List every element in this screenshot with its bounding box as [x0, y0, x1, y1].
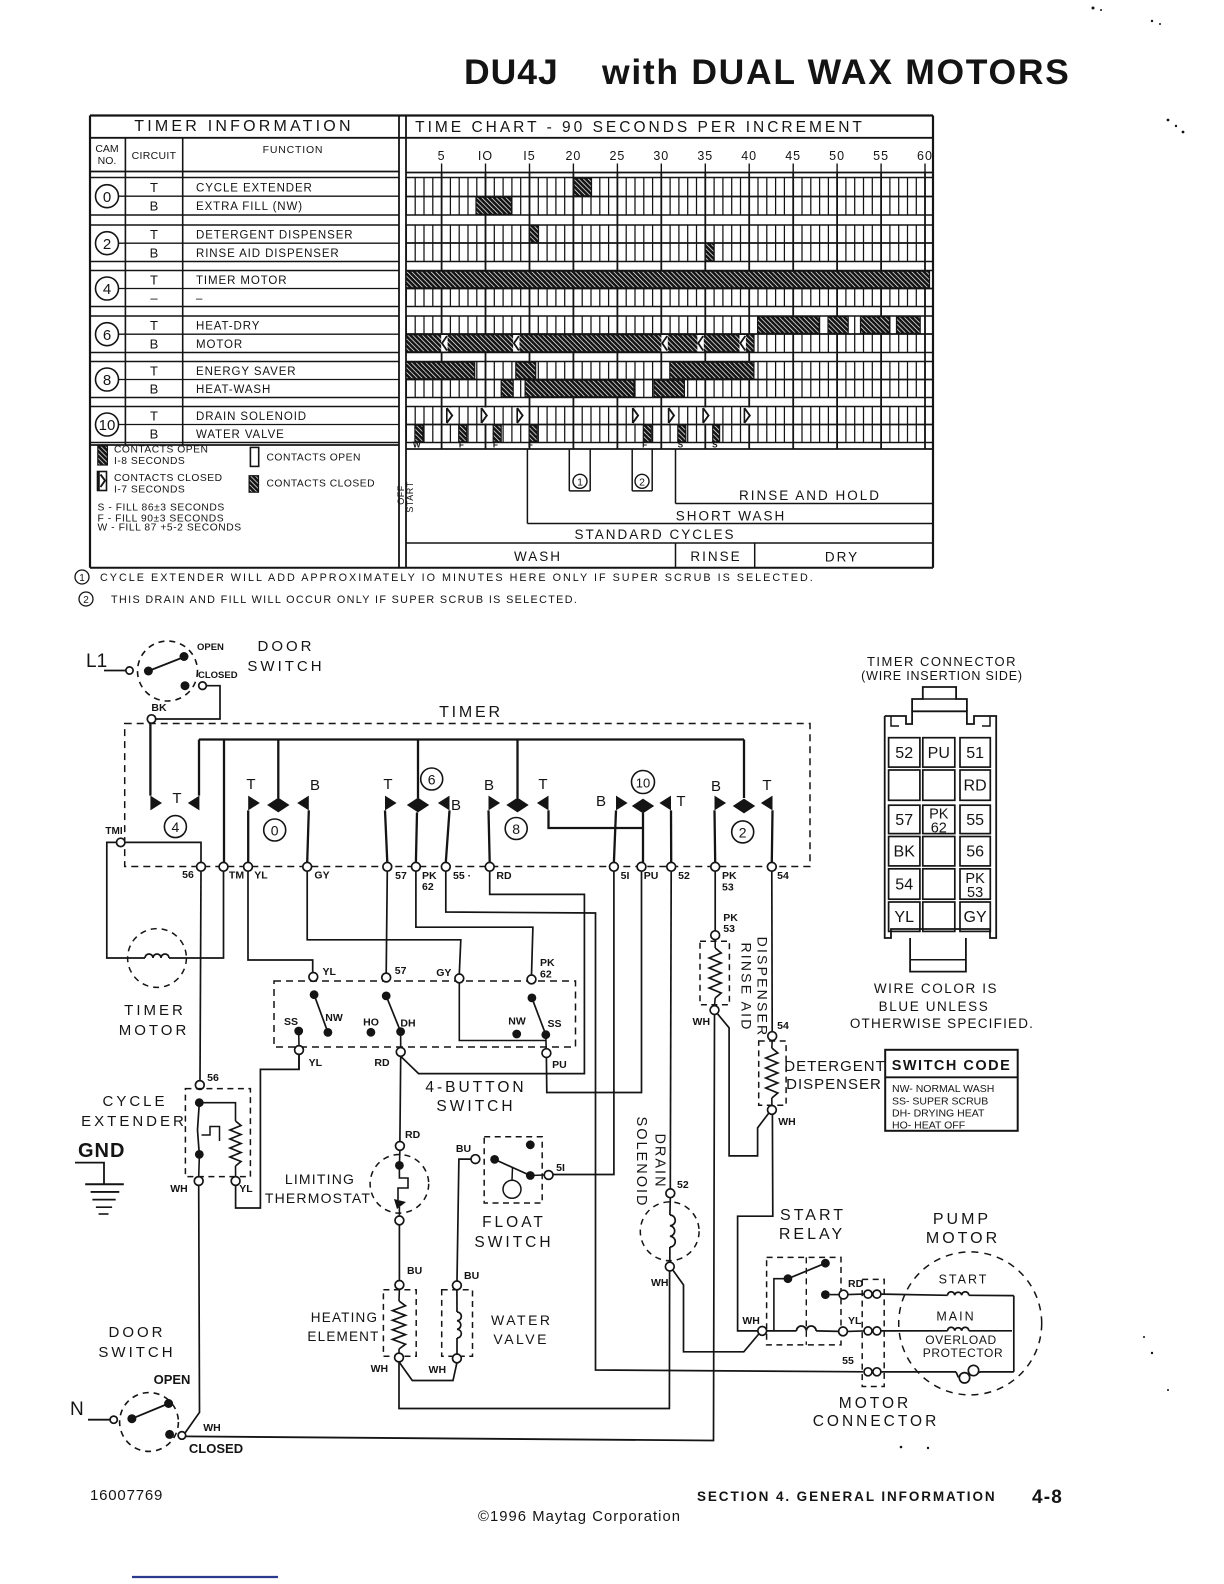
- limiting thermostat: [370, 1150, 429, 1225]
- svg-text:WH: WH: [203, 1422, 221, 1434]
- start relay assembly: [758, 1257, 848, 1345]
- svg-text:CLOSED: CLOSED: [189, 1441, 243, 1456]
- svg-text:LIMITING: LIMITING: [285, 1171, 355, 1187]
- terminal 56: [182, 862, 205, 881]
- svg-text:RD: RD: [964, 778, 987, 795]
- svg-text:SWITCH: SWITCH: [436, 1098, 515, 1115]
- ground symbol: [75, 1163, 124, 1214]
- wire bus to terminal TM: [223, 740, 225, 863]
- svg-text:HEAT-DRY: HEAT-DRY: [196, 321, 260, 333]
- svg-text:YL: YL: [848, 1315, 862, 1327]
- label WATER VALVE: [491, 1312, 553, 1347]
- svg-text:ELEMENT: ELEMENT: [307, 1329, 379, 1344]
- svg-text:1: 1: [79, 573, 85, 584]
- svg-text:F: F: [459, 440, 464, 449]
- heating element R1: [383, 1289, 416, 1362]
- svg-text:WIRE COLOR IS: WIRE COLOR IS: [874, 981, 998, 996]
- svg-text:CONTACTS CLOSED: CONTACTS CLOSED: [267, 479, 376, 490]
- float switch node labels: [456, 1143, 565, 1174]
- svg-text:WH: WH: [651, 1277, 669, 1289]
- svg-text:F: F: [642, 440, 647, 449]
- svg-text:56: 56: [207, 1072, 219, 1084]
- svg-text:IO: IO: [478, 149, 493, 163]
- svg-text:WH: WH: [429, 1364, 447, 1376]
- svg-text:CONNECTOR: CONNECTOR: [813, 1413, 940, 1430]
- svg-text:8: 8: [103, 372, 111, 389]
- svg-text:RINSE AND HOLD: RINSE AND HOLD: [739, 488, 881, 503]
- pump motor labels: [923, 1273, 1004, 1361]
- wire cam 10 T contact to terminal 52: [670, 810, 673, 862]
- svg-text:START: START: [405, 481, 415, 512]
- svg-text:(WIRE INSERTION SIDE): (WIRE INSERTION SIDE): [861, 669, 1023, 683]
- svg-text:4-BUTTON: 4-BUTTON: [425, 1079, 526, 1096]
- wire thermostat to heating element BU: [398, 1225, 400, 1281]
- svg-text:4: 4: [172, 819, 180, 835]
- svg-text:BU: BU: [407, 1265, 422, 1277]
- drain solenoid L1: [640, 1198, 699, 1271]
- node YL (cycle extender): [231, 1177, 253, 1195]
- svg-text:B: B: [451, 797, 461, 814]
- svg-text:SECTION 4. GENERAL INFORMATIO: SECTION 4. GENERAL INFORMATION: [697, 1489, 997, 1504]
- svg-text:SWITCH: SWITCH: [98, 1344, 175, 1361]
- svg-text:55 ·: 55 ·: [453, 870, 471, 882]
- svg-text:T: T: [150, 409, 158, 424]
- function names: [196, 183, 353, 442]
- fill letter row: [413, 440, 718, 449]
- terminal 57 (timer): [383, 862, 407, 882]
- svg-text:FUNCTION: FUNCTION: [263, 144, 324, 156]
- rinse aid dispenser heater: [700, 940, 729, 1015]
- svg-text:BU: BU: [456, 1143, 471, 1155]
- terminal GY (timer): [303, 862, 330, 881]
- wire cycle extender YL to 4-button switch YL output: [236, 1054, 299, 1208]
- svg-text:CYCLE EXTENDER: CYCLE EXTENDER: [196, 183, 313, 195]
- svg-text:OPEN: OPEN: [197, 642, 224, 653]
- svg-text:©1996 Maytag Corporation: ©1996 Maytag Corporation: [478, 1509, 681, 1525]
- svg-text:53: 53: [723, 923, 735, 935]
- node 56 (cycle extender): [195, 1072, 219, 1089]
- svg-text:TMI: TMI: [105, 826, 122, 837]
- svg-text:MAIN: MAIN: [936, 1310, 975, 1324]
- svg-text:B: B: [150, 382, 159, 397]
- svg-text:62: 62: [540, 969, 552, 981]
- svg-text:2: 2: [103, 236, 111, 253]
- svg-text:T: T: [676, 793, 685, 810]
- svg-text:30: 30: [653, 149, 669, 163]
- terminal PK 53 (timer): [711, 862, 737, 893]
- svg-text:OVERLOAD: OVERLOAD: [925, 1333, 997, 1347]
- drain solenoid row pulse marks: [446, 408, 750, 424]
- svg-text:DRAIN: DRAIN: [652, 1133, 668, 1188]
- wire heating element and water valve WH junction: [399, 1272, 670, 1409]
- left table row lines: [90, 178, 399, 443]
- svg-text:SWITCH: SWITCH: [474, 1234, 553, 1251]
- label HEATING ELEMENT: [307, 1310, 379, 1344]
- svg-text:ENERGY SAVER: ENERGY SAVER: [196, 366, 297, 378]
- svg-text:52: 52: [678, 870, 690, 882]
- svg-text:DISPENSER: DISPENSER: [755, 937, 771, 1038]
- node WH (cycle extender): [170, 1177, 203, 1195]
- svg-text:0: 0: [271, 823, 279, 839]
- svg-text:5I: 5I: [556, 1162, 565, 1174]
- terminal PK 62 (timer): [412, 862, 438, 893]
- svg-text:BLUE UNLESS: BLUE UNLESS: [879, 999, 990, 1014]
- wire L1 bus inside timer: [199, 738, 744, 740]
- door switch (bottom, N side): [120, 1393, 186, 1452]
- svg-text:62: 62: [422, 881, 434, 893]
- wire 55 to overload protector: [0, 0, 1, 1]
- timer enclosure (dashed): [125, 724, 810, 867]
- svg-text:THIS DRAIN AND FILL WILL OCCUR: THIS DRAIN AND FILL WILL OCCUR ONLY IF S…: [111, 594, 578, 606]
- svg-text:25: 25: [609, 149, 625, 163]
- svg-text:DU4J: DU4J: [464, 52, 559, 92]
- label DETERGENT DISPENSER: [784, 1058, 886, 1093]
- svg-text:SS: SS: [284, 1016, 298, 1028]
- cycle extender (wax motor) assembly: [185, 1089, 250, 1177]
- svg-text:DOOR: DOOR: [109, 1324, 166, 1341]
- svg-text:TIMER INFORMATION: TIMER INFORMATION: [134, 118, 353, 135]
- wire terminal YL to 4-button switch: [248, 871, 313, 973]
- svg-text:BK: BK: [151, 702, 167, 714]
- svg-text:2: 2: [739, 824, 747, 840]
- svg-text:GND: GND: [78, 1140, 125, 1162]
- svg-text:51: 51: [966, 745, 984, 762]
- svg-text:RD: RD: [848, 1278, 864, 1290]
- svg-text:6: 6: [428, 772, 436, 788]
- svg-text:BK: BK: [894, 844, 916, 861]
- svg-text:SOLENOID: SOLENOID: [633, 1117, 649, 1208]
- svg-text:DETERGENT DISPENSER: DETERGENT DISPENSER: [196, 230, 353, 242]
- svg-text:B: B: [484, 777, 494, 794]
- wire cam 10 B contact to terminal 51: [614, 810, 616, 862]
- svg-text:W: W: [413, 440, 421, 449]
- cam switch 2: [711, 777, 773, 843]
- wire cam 0 T contact to terminal YL: [247, 810, 249, 862]
- svg-text:RELAY: RELAY: [779, 1226, 845, 1243]
- svg-text:T: T: [150, 318, 158, 333]
- svg-text:GY: GY: [964, 909, 987, 926]
- wire timer motor to terminal TM: [169, 871, 224, 958]
- timer motor M1: [128, 929, 187, 988]
- svg-text:DRY: DRY: [825, 550, 859, 565]
- svg-text:B: B: [150, 336, 159, 351]
- svg-text:HO: HO: [363, 1017, 379, 1029]
- svg-text:HO- HEAT OFF: HO- HEAT OFF: [892, 1120, 965, 1132]
- svg-text:W - FILL 87 +5-2 SECONDS: W - FILL 87 +5-2 SECONDS: [98, 523, 242, 534]
- label TIMER MOTOR: [119, 1002, 190, 1039]
- wire drain solenoid WH to start relay WH: [673, 1270, 759, 1352]
- node N: [70, 1399, 117, 1423]
- svg-text:OTHERWISE SPECIFIED.: OTHERWISE SPECIFIED.: [850, 1016, 1034, 1031]
- label LIMITING THERMOSTAT: [265, 1171, 371, 1206]
- svg-text:45: 45: [785, 149, 801, 163]
- svg-text:WH: WH: [170, 1183, 188, 1195]
- detergent dispenser heater: [759, 1041, 786, 1115]
- start relay node labels: [742, 1278, 863, 1327]
- svg-text:B: B: [150, 427, 159, 442]
- label TIMER: [439, 704, 503, 721]
- wire bus to cam 2 common: [743, 740, 745, 799]
- svg-text:L1: L1: [86, 651, 107, 672]
- footer blue rule: [132, 1576, 278, 1578]
- svg-text:T: T: [762, 777, 771, 794]
- 4-button switch node labels: [309, 957, 567, 1071]
- svg-text:RINSE: RINSE: [690, 549, 741, 564]
- svg-text:NW: NW: [325, 1012, 343, 1024]
- svg-text:PROTECTOR: PROTECTOR: [923, 1346, 1004, 1360]
- wire relay RD to pump motor start winding: [848, 1294, 948, 1295]
- svg-text:PU: PU: [552, 1059, 567, 1071]
- svg-text:EXTENDER: EXTENDER: [81, 1113, 187, 1130]
- svg-text:PU: PU: [928, 745, 950, 762]
- wire rinse aid WH to detergent WH (loop): [718, 1014, 769, 1156]
- svg-text:52: 52: [895, 745, 913, 762]
- node BU (water valve): [453, 1270, 480, 1290]
- node TMI: [105, 826, 125, 847]
- svg-text:THERMOSTAT: THERMOSTAT: [265, 1190, 371, 1206]
- 4-button switch position labels: [284, 1012, 562, 1030]
- svg-text:50: 50: [829, 149, 845, 163]
- svg-text:DISPENSER: DISPENSER: [786, 1076, 882, 1093]
- wire cam 2 B contact to terminal PK53: [713, 810, 716, 862]
- svg-text:WH: WH: [371, 1363, 389, 1375]
- wire cam 6 T contact to terminal 57: [385, 810, 387, 862]
- svg-text:2: 2: [83, 595, 89, 606]
- node WH (drain solenoid): [651, 1277, 669, 1289]
- wire timer 54 to detergent dispenser: [771, 871, 773, 1032]
- footer section title: [697, 1487, 1063, 1508]
- chart row grids: [406, 178, 933, 450]
- svg-text:S: S: [678, 440, 684, 449]
- svg-text:8: 8: [512, 821, 520, 837]
- node PU (4-button): [0, 0, 1, 1]
- wire cam 6 B contact to terminal 55: [446, 810, 450, 862]
- svg-text:TIMER: TIMER: [439, 704, 503, 721]
- footer part number: [90, 1487, 163, 1504]
- svg-text:54: 54: [777, 1020, 789, 1032]
- svg-text:52: 52: [677, 1179, 689, 1191]
- svg-text:TIMER: TIMER: [124, 1002, 186, 1019]
- svg-text:TIMER CONNECTOR: TIMER CONNECTOR: [867, 654, 1017, 669]
- svg-text:SWITCH: SWITCH: [247, 658, 324, 675]
- svg-text:DH: DH: [400, 1018, 415, 1030]
- wire cam 2 T contact to terminal 54: [771, 810, 774, 862]
- svg-text:55: 55: [966, 812, 984, 829]
- wire terminal 55 to motor connector 55: [446, 871, 863, 1372]
- cam switch 8: [484, 776, 549, 840]
- label DRAIN SOLENOID (rotated): [633, 1117, 668, 1208]
- timer chart table frame: [90, 116, 933, 568]
- svg-text:CAM: CAM: [95, 143, 118, 155]
- node WH (detergent): [778, 1116, 796, 1128]
- wire detergent WH to start relay: [738, 1114, 773, 1331]
- label PUMP MOTOR: [926, 1211, 1000, 1247]
- svg-text:PK: PK: [722, 870, 737, 882]
- svg-text:PU: PU: [644, 870, 659, 882]
- svg-text:53: 53: [967, 885, 983, 901]
- svg-text:NO.: NO.: [98, 155, 117, 167]
- svg-text:PUMP: PUMP: [933, 1211, 991, 1228]
- cam switch 6: [383, 768, 461, 814]
- terminal 55 (timer): [441, 862, 471, 882]
- wire bus to cam 6 common: [417, 740, 419, 799]
- wire 4-button PU output to timer PU: [546, 871, 641, 1093]
- label TIMER CONNECTOR: [861, 654, 1023, 683]
- label DOOR SWITCH (bottom): [98, 1324, 243, 1456]
- svg-text:MOTOR: MOTOR: [119, 1022, 190, 1039]
- svg-text:WATER: WATER: [491, 1312, 553, 1328]
- svg-text:57: 57: [395, 965, 407, 977]
- label 4-BUTTON SWITCH: [425, 1079, 526, 1115]
- svg-text:1: 1: [577, 477, 583, 489]
- svg-text:CLOSED: CLOSED: [198, 670, 238, 681]
- svg-text:YL: YL: [894, 909, 914, 926]
- svg-text:EXTRA FILL (NW): EXTRA FILL (NW): [196, 201, 303, 213]
- svg-text:B: B: [150, 199, 159, 214]
- terminal RD (timer): [485, 862, 512, 882]
- svg-text:YL: YL: [254, 870, 268, 882]
- svg-text:YL: YL: [239, 1183, 253, 1195]
- svg-text:16007769: 16007769: [90, 1487, 163, 1504]
- page title: [464, 52, 1071, 92]
- svg-text:SHORT WASH: SHORT WASH: [676, 509, 787, 524]
- svg-text:S: S: [712, 440, 718, 449]
- wire BK to cam 4 left contact: [149, 723, 151, 795]
- svg-text:WATER VALVE: WATER VALVE: [196, 429, 285, 441]
- svg-text:T: T: [383, 776, 392, 793]
- svg-text:60: 60: [917, 149, 933, 163]
- door switch (top, L1 side): [138, 641, 238, 701]
- svg-text:–: –: [150, 291, 158, 306]
- svg-text:NW: NW: [508, 1016, 526, 1028]
- wire neutral bus (WH): [186, 1436, 711, 1440]
- svg-text:CONTACTS CLOSED: CONTACTS CLOSED: [114, 473, 223, 484]
- footnotes: [75, 570, 815, 606]
- svg-text:2: 2: [639, 477, 645, 489]
- wire color note: [850, 981, 1034, 1031]
- svg-text:40: 40: [741, 149, 757, 163]
- motor row clutch marks: [441, 335, 746, 352]
- svg-text:GY: GY: [436, 967, 451, 979]
- svg-text:F: F: [493, 440, 498, 449]
- chart hatched intervals: [406, 178, 930, 442]
- label START RELAY: [779, 1207, 846, 1243]
- wire terminal RD to 4-button switch RD: [401, 871, 585, 1074]
- label MOTOR CONNECTOR: [813, 1395, 940, 1430]
- svg-text:MOTOR: MOTOR: [839, 1395, 911, 1412]
- table header text: [95, 118, 865, 167]
- svg-text:T: T: [150, 273, 158, 288]
- svg-text:0: 0: [103, 189, 111, 206]
- svg-text:SS: SS: [547, 1018, 561, 1030]
- svg-text:57: 57: [395, 870, 407, 882]
- timer connector (wire insertion side): [885, 687, 997, 972]
- svg-text:62: 62: [931, 820, 947, 836]
- wire cam 8 T contact to cam 10 common and terminal PU: [549, 810, 644, 862]
- terminal 52 (timer): [667, 862, 690, 882]
- label RINSE AID DISPENSER (rotated): [739, 937, 771, 1038]
- svg-text:YL: YL: [323, 966, 337, 978]
- svg-text:RINSE AID DISPENSER: RINSE AID DISPENSER: [196, 248, 340, 260]
- svg-text:35: 35: [697, 149, 713, 163]
- svg-text:HEAT-WASH: HEAT-WASH: [196, 384, 271, 396]
- svg-text:B: B: [150, 245, 159, 260]
- svg-text:RD: RD: [405, 1129, 421, 1141]
- timer connector pin grid: [889, 738, 991, 932]
- float switch assembly: [471, 1137, 553, 1203]
- svg-text:56: 56: [182, 869, 194, 881]
- svg-text:RD: RD: [496, 870, 512, 882]
- wire cam 8 B contact to terminal RD: [489, 810, 490, 862]
- svg-text:RD: RD: [374, 1057, 390, 1069]
- wire timer PK53 to rinse aid dispenser: [714, 871, 716, 931]
- svg-text:5: 5: [438, 149, 446, 163]
- svg-text:OPEN: OPEN: [154, 1372, 191, 1387]
- svg-text:S - FILL 86±3 SECONDS: S - FILL 86±3 SECONDS: [98, 503, 225, 514]
- svg-text:N: N: [70, 1399, 84, 1420]
- node L1: [86, 651, 133, 674]
- cam switch 10: [596, 771, 686, 814]
- terminal TM: [219, 862, 244, 881]
- wire float switch BU to water valve: [457, 1159, 471, 1281]
- svg-text:SWITCH CODE: SWITCH CODE: [892, 1058, 1012, 1074]
- svg-text:6: 6: [103, 327, 111, 344]
- water valve solenoid: [442, 1290, 473, 1363]
- wire bus to cam 4 right contact: [198, 740, 200, 796]
- svg-text:HEATING: HEATING: [311, 1310, 378, 1325]
- svg-text:53: 53: [722, 882, 734, 894]
- svg-text:WH: WH: [693, 1016, 711, 1028]
- label CYCLE EXTENDER: [81, 1093, 187, 1130]
- svg-text:57: 57: [895, 812, 913, 829]
- svg-text:START: START: [780, 1207, 846, 1224]
- motor connector: [842, 1279, 884, 1386]
- svg-text:DH- DRYING HEAT: DH- DRYING HEAT: [892, 1108, 985, 1120]
- wire relay YL to pump motor main winding: [847, 1330, 947, 1333]
- svg-text:T: T: [150, 227, 158, 242]
- svg-text:I-7 SECONDS: I-7 SECONDS: [114, 485, 185, 496]
- svg-text:WH: WH: [778, 1116, 796, 1128]
- node 54 (detergent): [768, 1020, 789, 1041]
- svg-text:5I: 5I: [621, 870, 630, 882]
- svg-text:54: 54: [777, 870, 789, 882]
- svg-text:TM: TM: [229, 870, 244, 882]
- svg-text:TIME CHART - 90 SECONDS PER IN: TIME CHART - 90 SECONDS PER INCREMENT: [415, 119, 865, 136]
- svg-text:T: T: [246, 776, 255, 793]
- svg-text:T: T: [150, 180, 158, 195]
- wire terminal 57 to 4-button switch: [386, 871, 387, 973]
- wire rinse aid WH down to neutral bus: [711, 1015, 715, 1441]
- svg-text:WASH: WASH: [514, 549, 562, 564]
- pump motor assembly: [881, 1252, 1042, 1395]
- svg-text:56: 56: [966, 844, 984, 861]
- wire terminal 56 to cycle extender: [200, 871, 201, 1081]
- svg-text:–: –: [196, 293, 203, 305]
- wire TMI to terminal 56 and timer motor: [107, 842, 201, 958]
- svg-text:CONTACTS OPEN: CONTACTS OPEN: [114, 445, 208, 456]
- label DOOR SWITCH (top): [247, 638, 324, 675]
- svg-text:10: 10: [636, 776, 650, 791]
- svg-text:54: 54: [895, 877, 913, 894]
- svg-text:B: B: [596, 793, 606, 810]
- wire terminal PK62 to 4-button switch: [416, 871, 533, 975]
- svg-text:4-8: 4-8: [1032, 1487, 1063, 1508]
- node 52 (drain solenoid): [666, 1179, 689, 1198]
- svg-text:DOOR: DOOR: [258, 638, 315, 655]
- cycle bands: [396, 449, 933, 568]
- cam switch 0: [246, 776, 320, 841]
- svg-text:SS- SUPER SCRUB: SS- SUPER SCRUB: [892, 1096, 988, 1108]
